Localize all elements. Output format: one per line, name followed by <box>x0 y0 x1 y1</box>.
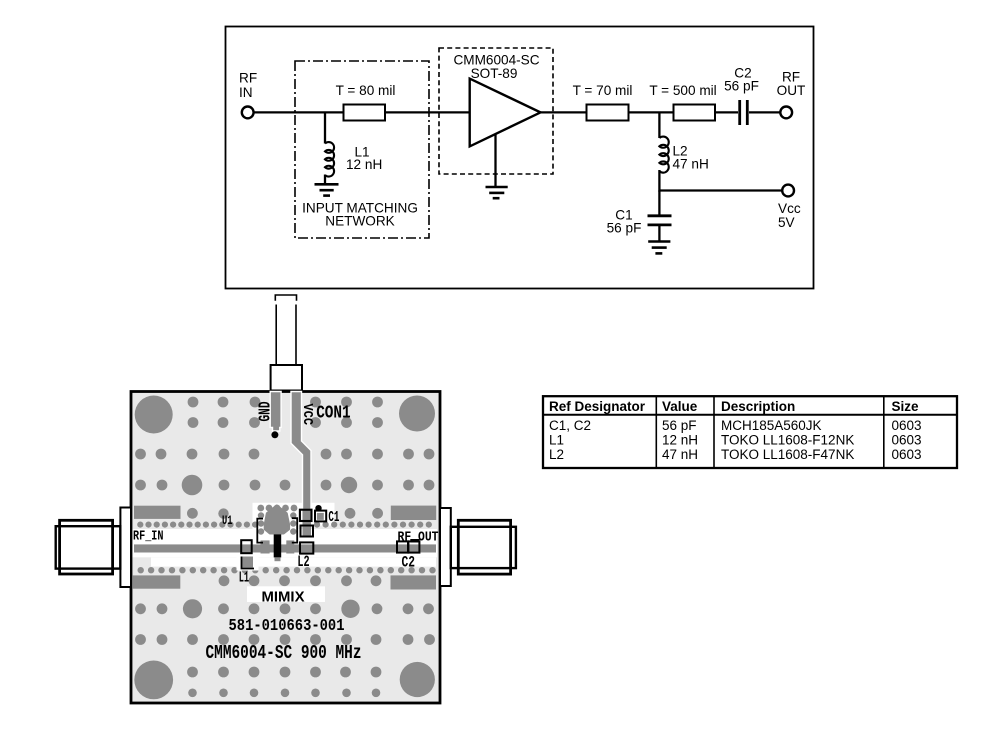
svg-text:Size: Size <box>892 399 920 414</box>
svg-text:TOKO LL1608-F12NK: TOKO LL1608-F12NK <box>721 432 854 447</box>
CON1 silkscreen label <box>316 403 351 424</box>
svg-text:RF: RF <box>239 71 257 86</box>
wire T70 to T500 <box>629 111 674 113</box>
svg-text:5V: 5V <box>778 215 795 230</box>
svg-text:VCC: VCC <box>299 404 314 426</box>
RF_OUT silkscreen label <box>398 529 439 545</box>
wire node to C1 <box>658 191 660 215</box>
C1 silkscreen label <box>328 510 339 526</box>
U1 device body pads <box>257 505 297 535</box>
svg-text:Value: Value <box>662 399 698 414</box>
SMA connector left barrel <box>56 520 121 574</box>
svg-text:L2: L2 <box>549 447 564 462</box>
capacitor pad column middle square <box>301 526 314 537</box>
svg-text:T = 500 mil: T = 500 mil <box>649 83 716 98</box>
wire junction to L2 <box>658 112 660 138</box>
capacitor C1 via dot <box>315 505 321 511</box>
svg-text:56 pF: 56 pF <box>662 418 697 433</box>
U1 right lead pad <box>286 540 294 553</box>
SMA connector right flange <box>440 508 451 586</box>
wire amp to T70 <box>541 111 587 113</box>
inductor L2 47 nH <box>659 137 708 173</box>
mounting hole pad bottom-right <box>400 662 435 697</box>
GND trace <box>270 392 281 432</box>
ground below C1 <box>648 242 670 254</box>
inductor L1 12 nH <box>325 142 382 177</box>
wire T80 to amplifier <box>385 111 470 113</box>
table header row <box>549 399 919 414</box>
inductor L2 body square on trace <box>300 542 313 553</box>
svg-text:581-010663-001: 581-010663-001 <box>229 616 345 635</box>
inductor L2 pcb trace stub <box>303 510 312 537</box>
mounting hole pad top-right <box>399 396 435 432</box>
table row L1 <box>549 432 922 447</box>
svg-text:GND: GND <box>256 401 275 421</box>
svg-text:TOKO LL1608-F47NK: TOKO LL1608-F47NK <box>721 447 854 462</box>
L1 silkscreen label <box>239 569 249 586</box>
svg-text:L1: L1 <box>549 432 564 447</box>
svg-text:47 nH: 47 nH <box>662 447 698 462</box>
svg-text:56 pF: 56 pF <box>607 221 642 236</box>
capacitor C2 56 pF <box>724 66 759 126</box>
solder mask white band along RF trace <box>133 529 438 571</box>
transmission line T = 70 mil <box>573 83 633 121</box>
mounting hole pad bottom-left <box>134 661 173 700</box>
op-amp U1 CMM6004-SC SOT-89 dashed box <box>439 48 553 174</box>
svg-text:0603: 0603 <box>892 447 922 462</box>
svg-text:RF_IN: RF_IN <box>133 528 164 544</box>
svg-text:T = 80 mil: T = 80 mil <box>336 83 396 98</box>
svg-text:RF_OUT: RF_OUT <box>398 529 439 545</box>
capacitor pad column upper square <box>300 510 312 521</box>
svg-text:56 pF: 56 pF <box>724 79 759 94</box>
inductor L1 upper square <box>241 540 252 553</box>
svg-text:L1: L1 <box>239 569 249 586</box>
mounting hole pad top-left <box>135 396 173 434</box>
svg-text:C1: C1 <box>328 510 339 526</box>
U1 silkscreen label <box>222 513 233 528</box>
board title silkscreen CMM6004-SC 900 MHz <box>206 642 362 664</box>
svg-text:U1: U1 <box>222 513 233 528</box>
svg-text:SOT-89: SOT-89 <box>471 66 518 81</box>
ground below amplifier <box>486 187 508 198</box>
RF microstrip trace <box>134 544 436 552</box>
VCC trace with jog <box>291 392 311 510</box>
U1 silkscreen bracket left <box>257 519 263 543</box>
connector CON1 flange <box>271 365 302 391</box>
svg-text:C1, C2: C1, C2 <box>549 418 591 433</box>
capacitor C2 body squares <box>397 539 420 553</box>
wire amp ground stem <box>494 134 496 187</box>
inductor L1 lower pad <box>242 557 255 569</box>
wire T500 to C2 <box>715 111 738 113</box>
SMA connector left flange <box>120 508 131 588</box>
parts table frame <box>543 396 957 468</box>
wire L2 to Vcc node <box>658 170 660 192</box>
svg-text:Description: Description <box>721 399 795 414</box>
via dots grid <box>135 397 436 697</box>
GND silkscreen label (rotated) <box>256 401 275 421</box>
wire L1 to ground <box>324 175 326 184</box>
L2 silkscreen label <box>297 553 309 571</box>
transmission line T = 80 mil <box>336 83 396 121</box>
svg-text:L2: L2 <box>297 553 309 571</box>
transmission line T = 500 mil <box>649 83 716 121</box>
svg-text:CON1: CON1 <box>316 403 351 424</box>
ground below L1 <box>315 184 339 195</box>
connector CON1 top coax pin bracket <box>275 295 296 301</box>
ground pad upper-right <box>391 506 436 520</box>
svg-text:OUT: OUT <box>777 83 806 98</box>
board number silkscreen 581-010663-001 <box>229 616 345 635</box>
svg-text:Ref Designator: Ref Designator <box>549 399 646 414</box>
solder clearance white around U1 and C1 <box>253 503 335 535</box>
connector CON1 coax barrel <box>276 305 296 366</box>
PCB board outline <box>131 392 440 704</box>
capacitor C1 56 pF <box>607 208 672 236</box>
svg-text:0603: 0603 <box>892 418 922 433</box>
U1 left lead pad <box>261 540 270 553</box>
node RF IN terminal <box>239 71 257 119</box>
svg-text:T = 70 mil: T = 70 mil <box>573 83 633 98</box>
wire RF IN to T80 <box>254 111 343 113</box>
GND test point dot <box>271 431 278 438</box>
VCC silkscreen label (rotated) <box>299 404 314 426</box>
U1 silkscreen bracket right <box>292 518 297 542</box>
U1 tab (black) <box>274 534 282 561</box>
wire Vcc feed <box>659 189 782 191</box>
svg-text:MIMIX: MIMIX <box>262 588 305 605</box>
svg-text:NETWORK: NETWORK <box>325 214 394 229</box>
svg-text:CMM6004-SC 900 MHz: CMM6004-SC 900 MHz <box>206 642 362 664</box>
wire C1 to ground <box>658 226 660 241</box>
ground pad lower-left <box>133 575 181 588</box>
svg-text:Vcc: Vcc <box>778 201 801 216</box>
svg-text:C2: C2 <box>402 554 416 572</box>
MIMIX logo label <box>247 586 325 605</box>
capacitor C1 body <box>315 511 326 522</box>
input matching network dash-dot box <box>295 61 429 238</box>
op-amp U1 triangle <box>470 79 541 147</box>
SMA connector right barrel <box>451 520 516 574</box>
svg-text:12 nH: 12 nH <box>662 432 698 447</box>
svg-text:12 nH: 12 nH <box>346 157 382 172</box>
table row C1, C2 <box>549 418 922 433</box>
wire junction to L1 <box>324 112 326 143</box>
wire C2 to RF OUT <box>749 111 780 113</box>
C2 silkscreen label <box>402 554 416 572</box>
RF_IN silkscreen label <box>133 528 164 544</box>
schematic outer border frame <box>226 27 814 289</box>
table row L2 <box>549 447 922 462</box>
svg-text:47 nH: 47 nH <box>673 157 709 172</box>
svg-text:MCH185A560JK: MCH185A560JK <box>721 418 822 433</box>
svg-text:IN: IN <box>239 85 253 100</box>
svg-text:0603: 0603 <box>892 432 922 447</box>
node Vcc terminal <box>778 185 801 230</box>
node RF OUT terminal <box>777 70 806 119</box>
ground pad lower-right <box>391 575 437 589</box>
ground pad upper-left <box>134 506 181 519</box>
